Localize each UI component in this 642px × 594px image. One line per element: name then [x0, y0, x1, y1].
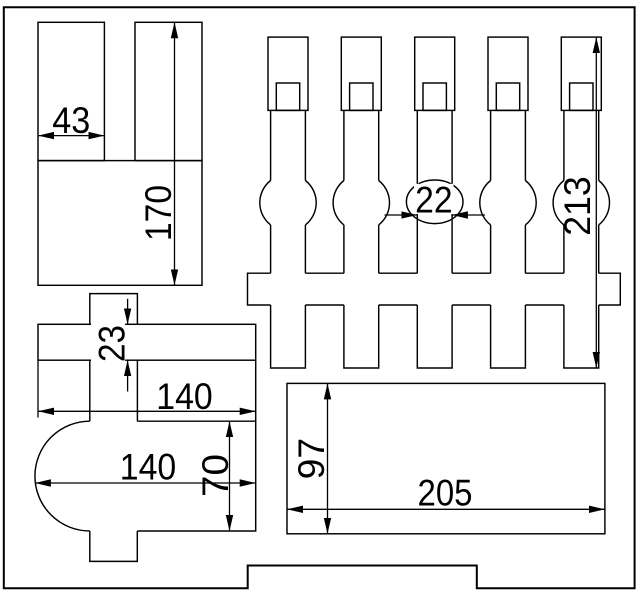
svg-text:70: 70: [195, 454, 236, 497]
finger 3 cap: [415, 37, 455, 110]
part P1 right prong: [135, 22, 202, 160]
svg-text:23: 23: [91, 325, 132, 362]
svg-text:22: 22: [415, 179, 453, 220]
finger 4 bulge arcs: [480, 181, 536, 225]
finger 3 tooth: [417, 305, 452, 368]
finger 3 square hole: [423, 83, 446, 110]
finger 5 neck: [564, 110, 599, 273]
dimension 97: [327, 383, 329, 533]
dimension 170: [174, 22, 176, 285]
part P4 plate: [287, 383, 605, 533]
finger 5 tooth: [564, 305, 599, 368]
svg-text:97: 97: [291, 438, 332, 480]
dimension 22: [385, 214, 486, 216]
comb part P2: [248, 37, 621, 368]
finger 4 square hole: [496, 83, 519, 110]
svg-text:140: 140: [156, 376, 213, 417]
dimension 140 upper: [38, 410, 256, 412]
finger 1 cap: [268, 37, 308, 110]
svg-text:140: 140: [120, 446, 177, 487]
finger 2 square hole: [350, 83, 373, 110]
finger 1 neck: [271, 110, 306, 273]
finger 5 square hole: [570, 83, 593, 110]
part P1 base: [38, 161, 202, 286]
svg-text:170: 170: [138, 185, 179, 241]
finger 2 cap: [341, 37, 381, 110]
svg-text:213: 213: [557, 176, 598, 236]
finger 2 neck: [344, 110, 379, 273]
finger 5 bulge arcs: [553, 181, 609, 225]
bottom tab: [90, 531, 138, 561]
neck: [90, 360, 138, 421]
dimension 205: [287, 508, 605, 510]
finger 2 bulge arcs: [333, 181, 389, 225]
finger 1 tooth: [271, 305, 306, 368]
text mask for 23: [91, 322, 125, 363]
finger 3 bulge ellipse: [406, 180, 463, 224]
svg-text:205: 205: [418, 472, 473, 513]
finger 4 neck: [491, 110, 526, 273]
dimension 70: [229, 421, 231, 531]
top tab: [90, 294, 138, 325]
part P3 cross + D-shaped body: [35, 294, 256, 562]
text mask for 22: [414, 184, 454, 214]
part P1 left prong: [38, 22, 104, 160]
finger 4 tooth: [491, 305, 526, 368]
svg-text:43: 43: [52, 100, 90, 141]
dimension 213: [595, 37, 597, 368]
finger 2 tooth: [344, 305, 379, 368]
dimension 23: [127, 299, 129, 392]
finger 1 square hole: [276, 83, 299, 110]
extension line for 140 upper: [37, 360, 39, 417]
dimension 43: [38, 135, 104, 137]
comb spine: [248, 273, 621, 305]
finger 3 neck: [417, 110, 452, 273]
finger 5 cap: [561, 37, 601, 110]
cross bar: [38, 324, 256, 360]
finger 4 cap: [488, 37, 528, 110]
dimension 140 lower: [35, 482, 256, 484]
right edge extension between bar and D body: [255, 360, 257, 421]
finger 1 bulge arcs: [260, 181, 316, 225]
D body: [35, 421, 256, 531]
